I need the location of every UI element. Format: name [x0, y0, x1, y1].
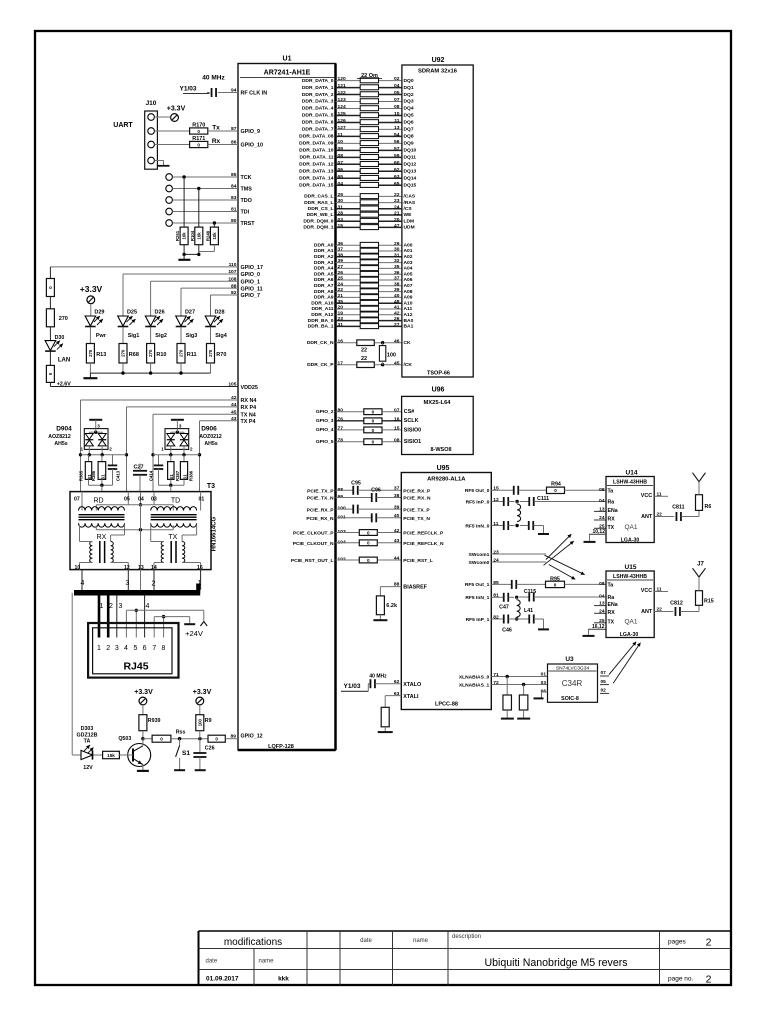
wire Sig3 LED column — [180, 288, 182, 316]
resistor R939 — [139, 715, 161, 741]
svg-text:XTALO: XTALO — [403, 682, 421, 688]
test point TMS to U1 pin 84 — [166, 184, 252, 193]
svg-text:22: 22 — [361, 356, 367, 362]
wire RF5 InN_0 — [491, 521, 543, 534]
svg-text:CS#: CS# — [404, 409, 415, 415]
svg-text:12V: 12V — [83, 765, 93, 771]
wire DDR_A6 with series resistor — [314, 276, 413, 284]
svg-text:GPIO_17: GPIO_17 — [241, 265, 263, 271]
svg-text:C96: C96 — [371, 488, 381, 494]
svg-text:D906: D906 — [201, 426, 217, 433]
svg-text:XTALI: XTALI — [403, 694, 419, 700]
wire PCIE_RX_N to U95 PCIE_TX_N — [306, 513, 430, 522]
svg-text:PCIE_RX_N: PCIE_RX_N — [403, 496, 431, 502]
svg-text:88: 88 — [231, 283, 237, 289]
pull resistor R104 10k — [190, 187, 203, 245]
svg-text:C46: C46 — [502, 628, 512, 634]
wire DDR_A5 with series resistor — [314, 270, 413, 278]
svg-text:DDR_DATA_5: DDR_DATA_5 — [302, 113, 334, 119]
svg-text:TDI: TDI — [241, 210, 250, 216]
svg-text:date: date — [360, 938, 372, 944]
svg-text:R386: R386 — [189, 470, 194, 481]
U1 AR7241 box — [238, 64, 336, 751]
svg-text:DDR_CAS_L: DDR_CAS_L — [304, 194, 333, 200]
svg-text:RF5 Out_0: RF5 Out_0 — [465, 488, 490, 494]
svg-text:DDR_BA_1: DDR_BA_1 — [308, 324, 334, 330]
wire D906 lower node — [159, 479, 185, 491]
svg-text:10: 10 — [338, 139, 344, 145]
svg-text:description: description — [452, 934, 481, 940]
U95 pin 12 RF5 InP_0 — [466, 497, 499, 505]
T3 pin 16 — [197, 565, 203, 571]
svg-text:29: 29 — [338, 192, 344, 198]
U1 pin 86 GPIO_10 — [231, 140, 263, 149]
U14 pin 25 TX — [594, 523, 615, 531]
wire DDR_A10 with series resistor — [311, 299, 413, 307]
svg-text:7: 7 — [152, 645, 156, 652]
svg-text:GPIO_11: GPIO_11 — [241, 286, 263, 292]
svg-text:0: 0 — [554, 488, 557, 493]
svg-text:RX: RX — [97, 534, 107, 541]
resistor at XLNABIAS_1 — [519, 685, 528, 719]
U95 box — [401, 473, 491, 710]
svg-text:DDR_DQM_1: DDR_DQM_1 — [303, 225, 333, 231]
svg-text:40 MHz: 40 MHz — [369, 674, 387, 680]
svg-text:45: 45 — [394, 360, 400, 366]
svg-text:2: 2 — [706, 974, 712, 986]
U3 pin 02 — [600, 688, 609, 694]
wire RF5 InN_1 C47 — [491, 593, 606, 611]
capacitor at RF CLK IN — [207, 88, 238, 97]
wire DDR_DATA_11 with series resistor — [299, 153, 416, 161]
U96 flash box — [402, 396, 474, 454]
inductor L41 — [515, 597, 533, 620]
U15 part LSHW-43HHB — [607, 574, 653, 580]
wire DDR_A4 with series resistor — [314, 264, 413, 272]
svg-text:A05: A05 — [404, 271, 413, 277]
svg-text:Q503: Q503 — [118, 736, 131, 742]
svg-text:37: 37 — [394, 276, 400, 282]
svg-text:04: 04 — [394, 83, 400, 89]
svg-text:XLNABIAS_1: XLNABIAS_1 — [459, 682, 490, 688]
svg-text:63: 63 — [394, 174, 400, 180]
svg-text:127: 127 — [338, 125, 346, 131]
svg-text:R386: R386 — [91, 470, 96, 481]
LED cathode rail — [90, 371, 210, 374]
wire RJ45 pins 7 8 to return — [154, 615, 190, 638]
svg-text:A10: A10 — [404, 300, 413, 306]
antenna at U14 — [693, 473, 706, 482]
svg-text:01: 01 — [541, 671, 547, 677]
U3 pin 05 — [600, 679, 609, 685]
svg-text:02: 02 — [601, 688, 607, 694]
svg-text:38: 38 — [338, 252, 344, 258]
transformer T3 box — [70, 492, 211, 570]
antenna J7 — [693, 562, 706, 578]
svg-text:21: 21 — [338, 293, 344, 299]
svg-text:11: 11 — [338, 132, 343, 138]
svg-text:83: 83 — [231, 195, 237, 201]
U3 package SOIC-8 — [561, 696, 579, 702]
svg-text:DDR_WE_L: DDR_WE_L — [307, 212, 334, 218]
T3 pin 13 stub — [140, 570, 142, 592]
svg-text:TX P4: TX P4 — [241, 419, 256, 425]
wire DDR_DATA_5 with series resistor — [302, 111, 414, 119]
svg-text:S1: S1 — [100, 474, 105, 480]
svg-text:AR9280-AL1A: AR9280-AL1A — [427, 477, 466, 483]
T3 label RX — [97, 534, 107, 541]
T3 refdes — [207, 483, 215, 490]
wire DDR_DATA_7 with series resistor — [302, 125, 414, 133]
svg-text:Sig2: Sig2 — [155, 333, 167, 339]
svg-text:08: 08 — [394, 104, 400, 110]
svg-text:16: 16 — [197, 565, 203, 571]
T3 pin 10 — [75, 565, 81, 571]
U95 pin 82 RF5 InP_1 — [466, 614, 499, 622]
svg-text:01: 01 — [199, 497, 205, 503]
wire DDR_DATA_13 with series resistor — [299, 167, 416, 175]
svg-text:+3.3V: +3.3V — [193, 689, 212, 696]
wire DDR_DATA_14 with series resistor — [299, 174, 416, 182]
LED D25 Sig1 — [118, 310, 140, 344]
T3 TX winding connections — [151, 525, 201, 570]
svg-text:R10: R10 — [156, 352, 166, 358]
svg-text:VCC: VCC — [641, 588, 652, 594]
+3.3V at R9 — [193, 689, 212, 715]
svg-text:+24V: +24V — [185, 629, 203, 638]
svg-text:28: 28 — [338, 211, 344, 217]
svg-text:UDM: UDM — [404, 225, 415, 231]
svg-text:22: 22 — [361, 348, 367, 354]
svg-text:PCIE_TX_N: PCIE_TX_N — [403, 516, 430, 522]
svg-text:Tx: Tx — [212, 125, 220, 132]
wire PCIE_CLKOUT_P to U95 PCIE_REFCLK_P — [293, 528, 444, 537]
svg-text:30: 30 — [394, 247, 400, 253]
capacitor C811 — [672, 505, 699, 522]
wire DDR_DATA_0 with series resistor — [302, 76, 414, 84]
title col date — [360, 938, 372, 944]
svg-text:SCLK: SCLK — [404, 418, 419, 424]
svg-text:LAN: LAN — [58, 358, 70, 364]
svg-text:DDR_A1: DDR_A1 — [314, 248, 334, 254]
U14 pin 24 RX — [594, 515, 615, 523]
svg-text:U96: U96 — [432, 387, 445, 394]
svg-text:LDM: LDM — [404, 218, 415, 224]
svg-text:DDR_A2: DDR_A2 — [314, 254, 334, 260]
svg-text:UART: UART — [113, 122, 133, 129]
svg-text:DDR_DATA_4: DDR_DATA_4 — [302, 106, 334, 112]
svg-text:A06: A06 — [404, 277, 413, 283]
wire PCIE_RST_OUT_L to U95 PCIE_RST_L — [291, 555, 433, 564]
svg-text:63: 63 — [394, 691, 400, 697]
T3 pin 01 — [199, 492, 205, 511]
svg-text:LGA-30: LGA-30 — [620, 632, 639, 638]
svg-text:0: 0 — [554, 582, 557, 587]
wire Sig2 LED column — [150, 281, 152, 316]
pull resistor R251 10k — [175, 175, 188, 244]
wire DDR_RAS_L with series resistor — [304, 198, 416, 206]
test point TCK to U1 pin 85 — [166, 172, 252, 181]
svg-text:26: 26 — [394, 316, 400, 322]
T3 pin 13 — [138, 565, 144, 571]
svg-text:02: 02 — [394, 76, 400, 82]
svg-text:3: 3 — [97, 424, 100, 429]
svg-text:A07: A07 — [404, 283, 413, 289]
RJ45 pin numbers — [97, 645, 165, 652]
svg-text:SWcom0: SWcom0 — [469, 560, 490, 566]
arrow SWcom to U14 — [546, 534, 571, 559]
wire DDR_A8 with series resistor — [314, 287, 413, 295]
wire DDR_CAS_L with series resistor — [304, 192, 416, 200]
svg-text:R248: R248 — [206, 230, 211, 241]
svg-text:270: 270 — [59, 316, 68, 322]
wire DDR_DATA_4 with series resistor — [302, 104, 414, 112]
+24V symbol — [185, 622, 207, 639]
svg-text:39: 39 — [394, 505, 400, 511]
svg-text:D27: D27 — [185, 310, 195, 316]
svg-text:D303: D303 — [81, 726, 94, 732]
svg-text:10: 10 — [75, 565, 81, 571]
svg-text:DQ15: DQ15 — [404, 182, 417, 188]
svg-text:C95: C95 — [351, 481, 361, 487]
svg-text:DDR_DATA_14: DDR_DATA_14 — [299, 175, 334, 181]
svg-text:10k: 10k — [212, 232, 217, 240]
svg-text:A00: A00 — [404, 242, 413, 248]
wire DDR_CK_P with 22 ohm resistor — [307, 356, 412, 368]
T3 pin 14 stub — [151, 570, 155, 592]
svg-text:U1: U1 — [283, 56, 292, 63]
T3 pin 10 stub — [81, 570, 85, 592]
ground at XLNABIAS_0 resistor — [501, 718, 514, 720]
svg-text:76: 76 — [338, 416, 344, 422]
arrow U3 05 to U15 — [613, 643, 640, 684]
svg-text:R13: R13 — [96, 352, 106, 358]
inductor at C111 node — [517, 502, 521, 522]
svg-text:Ta: Ta — [608, 583, 614, 589]
U15 package LGA-30 — [620, 632, 639, 638]
svg-text:AH5s: AH5s — [54, 441, 67, 447]
wire D906 pins node — [153, 453, 200, 456]
svg-text:10k: 10k — [182, 232, 187, 240]
svg-text:54: 54 — [394, 132, 400, 138]
svg-text:4: 4 — [146, 603, 150, 610]
wire DDR_DATA_9 with series resistor — [299, 139, 414, 147]
svg-text:126: 126 — [338, 118, 346, 124]
svg-text:2: 2 — [109, 603, 113, 610]
svg-text:DQ14: DQ14 — [404, 175, 417, 181]
svg-text:8-WSOII: 8-WSOII — [430, 447, 452, 453]
svg-text:+3.3V: +3.3V — [167, 106, 186, 113]
svg-text:78: 78 — [338, 437, 344, 443]
svg-text:DDR_DATA_10: DDR_DATA_10 — [299, 148, 334, 154]
svg-text:HN16614CG: HN16614CG — [212, 516, 218, 551]
svg-text:PCIE_RST_OUT_L: PCIE_RST_OUT_L — [291, 558, 334, 564]
test point TRST to U1 pin 80 — [166, 218, 255, 227]
svg-text:U3: U3 — [565, 656, 574, 663]
svg-text:2: 2 — [106, 645, 110, 652]
resistor at XTALI — [381, 696, 389, 732]
svg-text:42: 42 — [394, 310, 400, 316]
svg-text:R9: R9 — [205, 718, 212, 724]
resistor 15k — [93, 751, 133, 758]
D904 labels — [48, 426, 72, 447]
svg-text:6: 6 — [143, 645, 147, 652]
svg-text:15: 15 — [338, 223, 344, 229]
svg-text:05: 05 — [601, 679, 607, 685]
svg-text:DDR_A0: DDR_A0 — [314, 242, 334, 248]
svg-text:DDR_DATA_11: DDR_DATA_11 — [299, 155, 333, 161]
svg-text:DDR_DATA_6: DDR_DATA_6 — [302, 120, 334, 126]
svg-text:3: 3 — [119, 603, 123, 610]
svg-text:Sig1: Sig1 — [128, 333, 140, 339]
wire DDR_DATA_10 with series resistor — [299, 146, 416, 154]
svg-text:270: 270 — [148, 349, 153, 357]
svg-text:date: date — [206, 959, 218, 965]
svg-text:S1: S1 — [169, 474, 174, 480]
wire XTALI — [385, 691, 419, 700]
svg-text:LGA-30: LGA-30 — [621, 538, 640, 544]
svg-text:C26: C26 — [205, 746, 215, 752]
svg-text:RF CLK IN: RF CLK IN — [241, 91, 268, 97]
wire RJ45 3 — [117, 595, 123, 637]
T3 core lines — [79, 515, 197, 520]
svg-text:DDR_DATA_1: DDR_DATA_1 — [302, 85, 334, 91]
svg-text:10: 10 — [394, 111, 400, 117]
U14 part LSHW-43HHB — [607, 480, 653, 486]
ground at LED rail — [83, 373, 97, 378]
svg-text:07: 07 — [338, 160, 344, 166]
U95 pin 15 RF5 Out_0 — [465, 486, 499, 494]
U14 pins 10,12 to ground — [584, 529, 607, 542]
svg-text:0: 0 — [372, 410, 375, 415]
TVS array D904 — [81, 420, 113, 455]
svg-text:TSOP-66: TSOP-66 — [427, 371, 450, 377]
wire DDR_A0 with series resistor — [314, 241, 413, 249]
resistor R9 100 — [196, 715, 212, 739]
wire DDR_A11 with series resistor — [311, 305, 412, 313]
U15 box — [606, 571, 654, 638]
svg-text:44: 44 — [231, 402, 237, 408]
svg-text:ANT: ANT — [641, 609, 653, 615]
wire GPIO_3 with 0 ohm resistor — [316, 416, 419, 424]
svg-text:04: 04 — [138, 497, 144, 503]
svg-text:DQ13: DQ13 — [404, 168, 417, 174]
svg-text:S1: S1 — [182, 750, 190, 757]
svg-text:ENa: ENa — [608, 602, 618, 608]
ground at RF5 InN_0 — [538, 533, 549, 535]
svg-text:TX N4: TX N4 — [241, 413, 256, 419]
T3 pin 12 stub — [126, 570, 130, 592]
svg-text:S1: S1 — [182, 474, 187, 480]
U95 pin 85 RF5 Out_1 — [465, 580, 499, 588]
svg-text:36: 36 — [338, 241, 344, 247]
resistor 0 top of LAN chain — [46, 267, 54, 297]
svg-text:94: 94 — [231, 88, 237, 94]
crystal Y1/03 — [180, 86, 210, 94]
wire SWcom0 — [491, 561, 546, 563]
U1 refdes — [283, 56, 292, 63]
arrow SWcom to U15 b — [549, 565, 576, 580]
wire RF5 Out_1 to R95 — [491, 580, 545, 595]
capacitor C812 — [670, 601, 699, 617]
wire +2.6V to VDD25 — [50, 382, 238, 388]
wire bus to D303 — [71, 593, 73, 755]
svg-text:DDR_DATA_12: DDR_DATA_12 — [299, 162, 334, 168]
U92 SDRAM box — [402, 65, 473, 377]
svg-text:08: 08 — [599, 487, 605, 493]
U14 package LGA-30 — [621, 538, 640, 544]
RJ45 label — [123, 661, 148, 673]
svg-text:VCC: VCC — [641, 493, 652, 499]
resistor R10 270 — [147, 344, 167, 374]
U92 package TSOP-66 — [427, 371, 450, 377]
svg-text:AH5s: AH5s — [204, 441, 217, 447]
title label date — [206, 959, 218, 965]
svg-text:+3.3V: +3.3V — [80, 284, 103, 294]
wire D904 pins node — [81, 453, 127, 456]
svg-text:4: 4 — [81, 580, 85, 587]
svg-text:15k: 15k — [107, 753, 115, 758]
svg-text:D25: D25 — [127, 310, 137, 316]
svg-text:DQ1: DQ1 — [404, 85, 414, 91]
svg-text:12: 12 — [124, 565, 130, 571]
svg-text:A12: A12 — [404, 312, 413, 318]
T3 pin 05 — [124, 492, 130, 505]
T3 secondary top winding RX side — [79, 523, 125, 527]
wire XLNABIAS_0 — [491, 671, 547, 678]
T3 TD winding — [151, 507, 197, 511]
U3 label C34R — [562, 679, 583, 688]
svg-text:GPIO_5: GPIO_5 — [316, 439, 334, 445]
U14 label QA1 — [624, 524, 637, 531]
svg-text:125: 125 — [338, 111, 346, 117]
svg-text:11: 11 — [394, 118, 399, 124]
wire U1 pin 108 GPIO_1 — [151, 276, 260, 285]
svg-text:37: 37 — [394, 486, 400, 492]
+3.3V at R939 — [134, 689, 153, 715]
U15 pins 16,12 to ground — [583, 624, 606, 636]
ground at C46 — [538, 628, 549, 630]
svg-text:U92: U92 — [432, 57, 445, 64]
resistor R386 — [91, 455, 106, 481]
svg-text:R15: R15 — [704, 599, 714, 605]
svg-text:Rx: Rx — [212, 138, 221, 145]
svg-text:0: 0 — [367, 541, 370, 546]
wire U1 pin 88 GPIO_11 — [181, 283, 263, 292]
TVS array D906 — [161, 420, 193, 455]
svg-text:38: 38 — [394, 281, 400, 287]
wire U1 pin 107 GPIO_0 — [123, 269, 260, 278]
svg-text:65: 65 — [394, 181, 400, 187]
svg-text:03: 03 — [338, 217, 344, 223]
wire DDR_DQM_1 with series resistor — [303, 223, 414, 231]
T3 RX winding connections — [80, 525, 129, 570]
svg-text:4: 4 — [124, 645, 128, 652]
svg-text:RF5 InP_0: RF5 InP_0 — [466, 499, 490, 505]
svg-text:CK: CK — [404, 340, 412, 346]
svg-text:DDR_BA_0: DDR_BA_0 — [308, 318, 334, 324]
svg-text:ENa: ENa — [608, 508, 618, 514]
svg-text:DDR_A5: DDR_A5 — [314, 271, 334, 277]
U14 pin 13 ENa — [594, 506, 618, 514]
U92 part SDRAM 32x16 — [418, 69, 458, 75]
wire U1 pin 43 TX P4 — [200, 416, 256, 425]
svg-text:08: 08 — [394, 437, 400, 443]
wire DDR_A3 with series resistor — [314, 258, 413, 266]
svg-text:121: 121 — [338, 83, 346, 89]
svg-text:Ta: Ta — [608, 489, 614, 495]
svg-text:R387: R387 — [175, 470, 180, 481]
